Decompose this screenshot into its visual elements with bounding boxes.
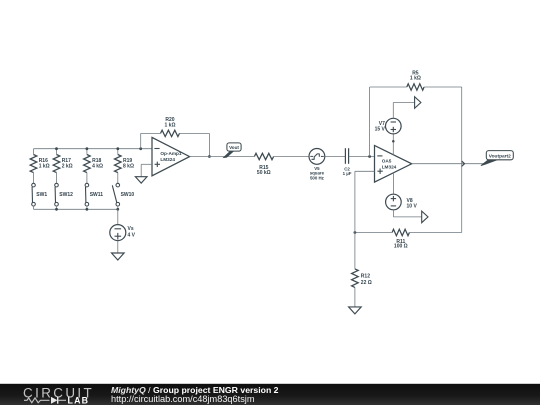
wire R5 rail left (370, 86, 407, 88)
op-amp U2 OA5 LM324 (375, 146, 412, 183)
node R11/R12/+input junction (354, 231, 357, 234)
wire op-amp2 + input left (355, 170, 375, 172)
logo resistor-diode squiggle (24, 398, 50, 403)
svg-text:SW12: SW12 (59, 192, 73, 198)
wire feedback top left (141, 132, 161, 134)
switch SW11 (85, 183, 89, 187)
op-amp U1 Op-Amp1 LM324 (152, 137, 190, 175)
svg-text:Op-Amp1: Op-Amp1 (160, 151, 181, 156)
resistor R19 (115, 155, 122, 173)
wire feedback top right (180, 132, 210, 134)
wire op-amp2 output (412, 163, 487, 165)
node bottom rail junction SW12 (55, 208, 58, 211)
switch SW1 (32, 183, 36, 187)
voltage source V8 10V (386, 194, 402, 210)
resistor R16 (30, 155, 37, 173)
svg-text:SW11: SW11 (90, 192, 104, 198)
resistor R20 (161, 130, 180, 136)
svg-text:4 kΩ: 4 kΩ (92, 164, 103, 170)
node bottom rail junction SW10 (116, 208, 119, 211)
resistor R11 (392, 229, 409, 235)
node top rail junction R18 (86, 147, 89, 150)
node op-amp2 inverting junction (368, 155, 371, 158)
svg-text:R12: R12 (361, 273, 370, 279)
wire switch SW1 to bottom rail (33, 206, 35, 209)
wire V5 to C2 (325, 156, 346, 158)
svg-text:2 kΩ: 2 kΩ (62, 164, 73, 170)
wire C2 to op-amp2 inverting input (349, 156, 375, 158)
wire feedback up (140, 133, 142, 148)
svg-text:LM324: LM324 (382, 164, 397, 169)
svg-text:1 kΩ: 1 kΩ (410, 76, 421, 82)
wire right vertical (R5 to R11) (461, 87, 463, 233)
svg-text:1 kΩ: 1 kΩ (39, 164, 50, 170)
wire switch SW10 to bottom rail (117, 206, 119, 209)
svg-text:SW1: SW1 (36, 192, 47, 198)
flag V- rail (422, 211, 428, 223)
wire branch stub top R16 (33, 149, 35, 155)
node V+ pin (392, 140, 395, 143)
node top rail junction R17 (55, 147, 58, 150)
flag Vout (224, 151, 234, 158)
node feedback/output junction (208, 155, 211, 158)
wire node down to R12 (354, 233, 356, 269)
wire top rail (R16..R19 to op-amp inverting input) (34, 148, 153, 150)
node top rail junction R19 (116, 147, 119, 150)
wire Vs to ground (117, 241, 119, 253)
svg-text:Vs: Vs (128, 226, 134, 232)
wire V7 top to flag (392, 103, 394, 119)
wire R5 rail right (424, 86, 462, 88)
wire switch SW12 to bottom rail (56, 206, 58, 209)
svg-text:OA5: OA5 (382, 158, 392, 163)
svg-text:10 V: 10 V (407, 204, 418, 210)
wire R16 to switch SW1 (33, 173, 35, 184)
svg-text:15 V: 15 V (375, 126, 386, 132)
wire V7 to op-amp2 V+ pin (392, 134, 394, 155)
wire R18 to switch SW11 (86, 173, 88, 184)
wire hop over output at right vertical (462, 161, 465, 166)
wire inverting node up to R5 rail (369, 87, 371, 157)
wire op-amp1 + input to ground (141, 163, 152, 165)
switch SW10 (116, 183, 120, 187)
svg-text:100 Ω: 100 Ω (394, 244, 408, 250)
wire branch stub top R19 (117, 149, 119, 155)
svg-text:SW10: SW10 (121, 192, 135, 198)
switch SW12 (55, 183, 59, 187)
resistor R17 (53, 155, 60, 173)
voltage source V7 15V (386, 118, 402, 134)
node inverting input junction (feedback tap) (139, 147, 142, 150)
svg-text:http://circuitlab.com/c48jm83q: http://circuitlab.com/c48jm83q6tsjm (111, 394, 255, 404)
svg-text:Voutpart2: Voutpart2 (489, 153, 511, 159)
svg-text:Vout: Vout (229, 145, 239, 150)
ground below R12 (349, 307, 362, 314)
ground at op-amp1 + input (135, 177, 147, 183)
wire V8 bottom to flag (392, 210, 394, 217)
resistor R5 (407, 84, 424, 90)
svg-text:4 V: 4 V (128, 232, 136, 238)
capacitor C2 1uF (344, 148, 346, 164)
svg-text:500 Hz: 500 Hz (310, 175, 325, 180)
node bottom rail junction SW11 (86, 208, 89, 211)
wire R17 to switch SW12 (56, 173, 58, 184)
wire op-amp2 V- pin to V8 (392, 173, 394, 194)
wire R19 to switch SW10 (117, 173, 119, 184)
resistor R15 (254, 153, 273, 159)
wire feedback down to output (208, 133, 210, 156)
wire bottom rail (switch commons) (34, 208, 118, 210)
wire branch stub top R18 (86, 149, 88, 155)
wire R11 to + node (355, 232, 392, 234)
svg-text:1 kΩ: 1 kΩ (165, 123, 176, 129)
svg-text:8 kΩ: 8 kΩ (123, 164, 134, 170)
wire R15 to V5 (274, 156, 309, 158)
svg-text:LM324: LM324 (160, 157, 175, 162)
wire bottom rail to Vs (117, 209, 119, 224)
ground below Vs (112, 253, 125, 260)
voltage source Vs 4V (110, 225, 126, 241)
wire + input down to R11/R12 node (354, 171, 356, 232)
source V5 square 500Hz (309, 149, 325, 165)
flag Voutpart2 (481, 160, 498, 166)
resistor R12 (352, 269, 359, 288)
flag V+ rail (415, 97, 421, 109)
resistor R18 (84, 155, 91, 173)
wire switch SW11 to bottom rail (86, 206, 88, 209)
svg-text:22 Ω: 22 Ω (361, 280, 372, 286)
wire R12 to ground (354, 287, 356, 307)
svg-text:LAB: LAB (68, 395, 90, 405)
svg-text:50 kΩ: 50 kΩ (257, 170, 271, 176)
wire R11 row right (409, 232, 461, 234)
svg-text:1 µF: 1 µF (343, 171, 352, 176)
wire op-amp1 output (190, 156, 255, 158)
wire branch stub top R17 (56, 149, 58, 155)
